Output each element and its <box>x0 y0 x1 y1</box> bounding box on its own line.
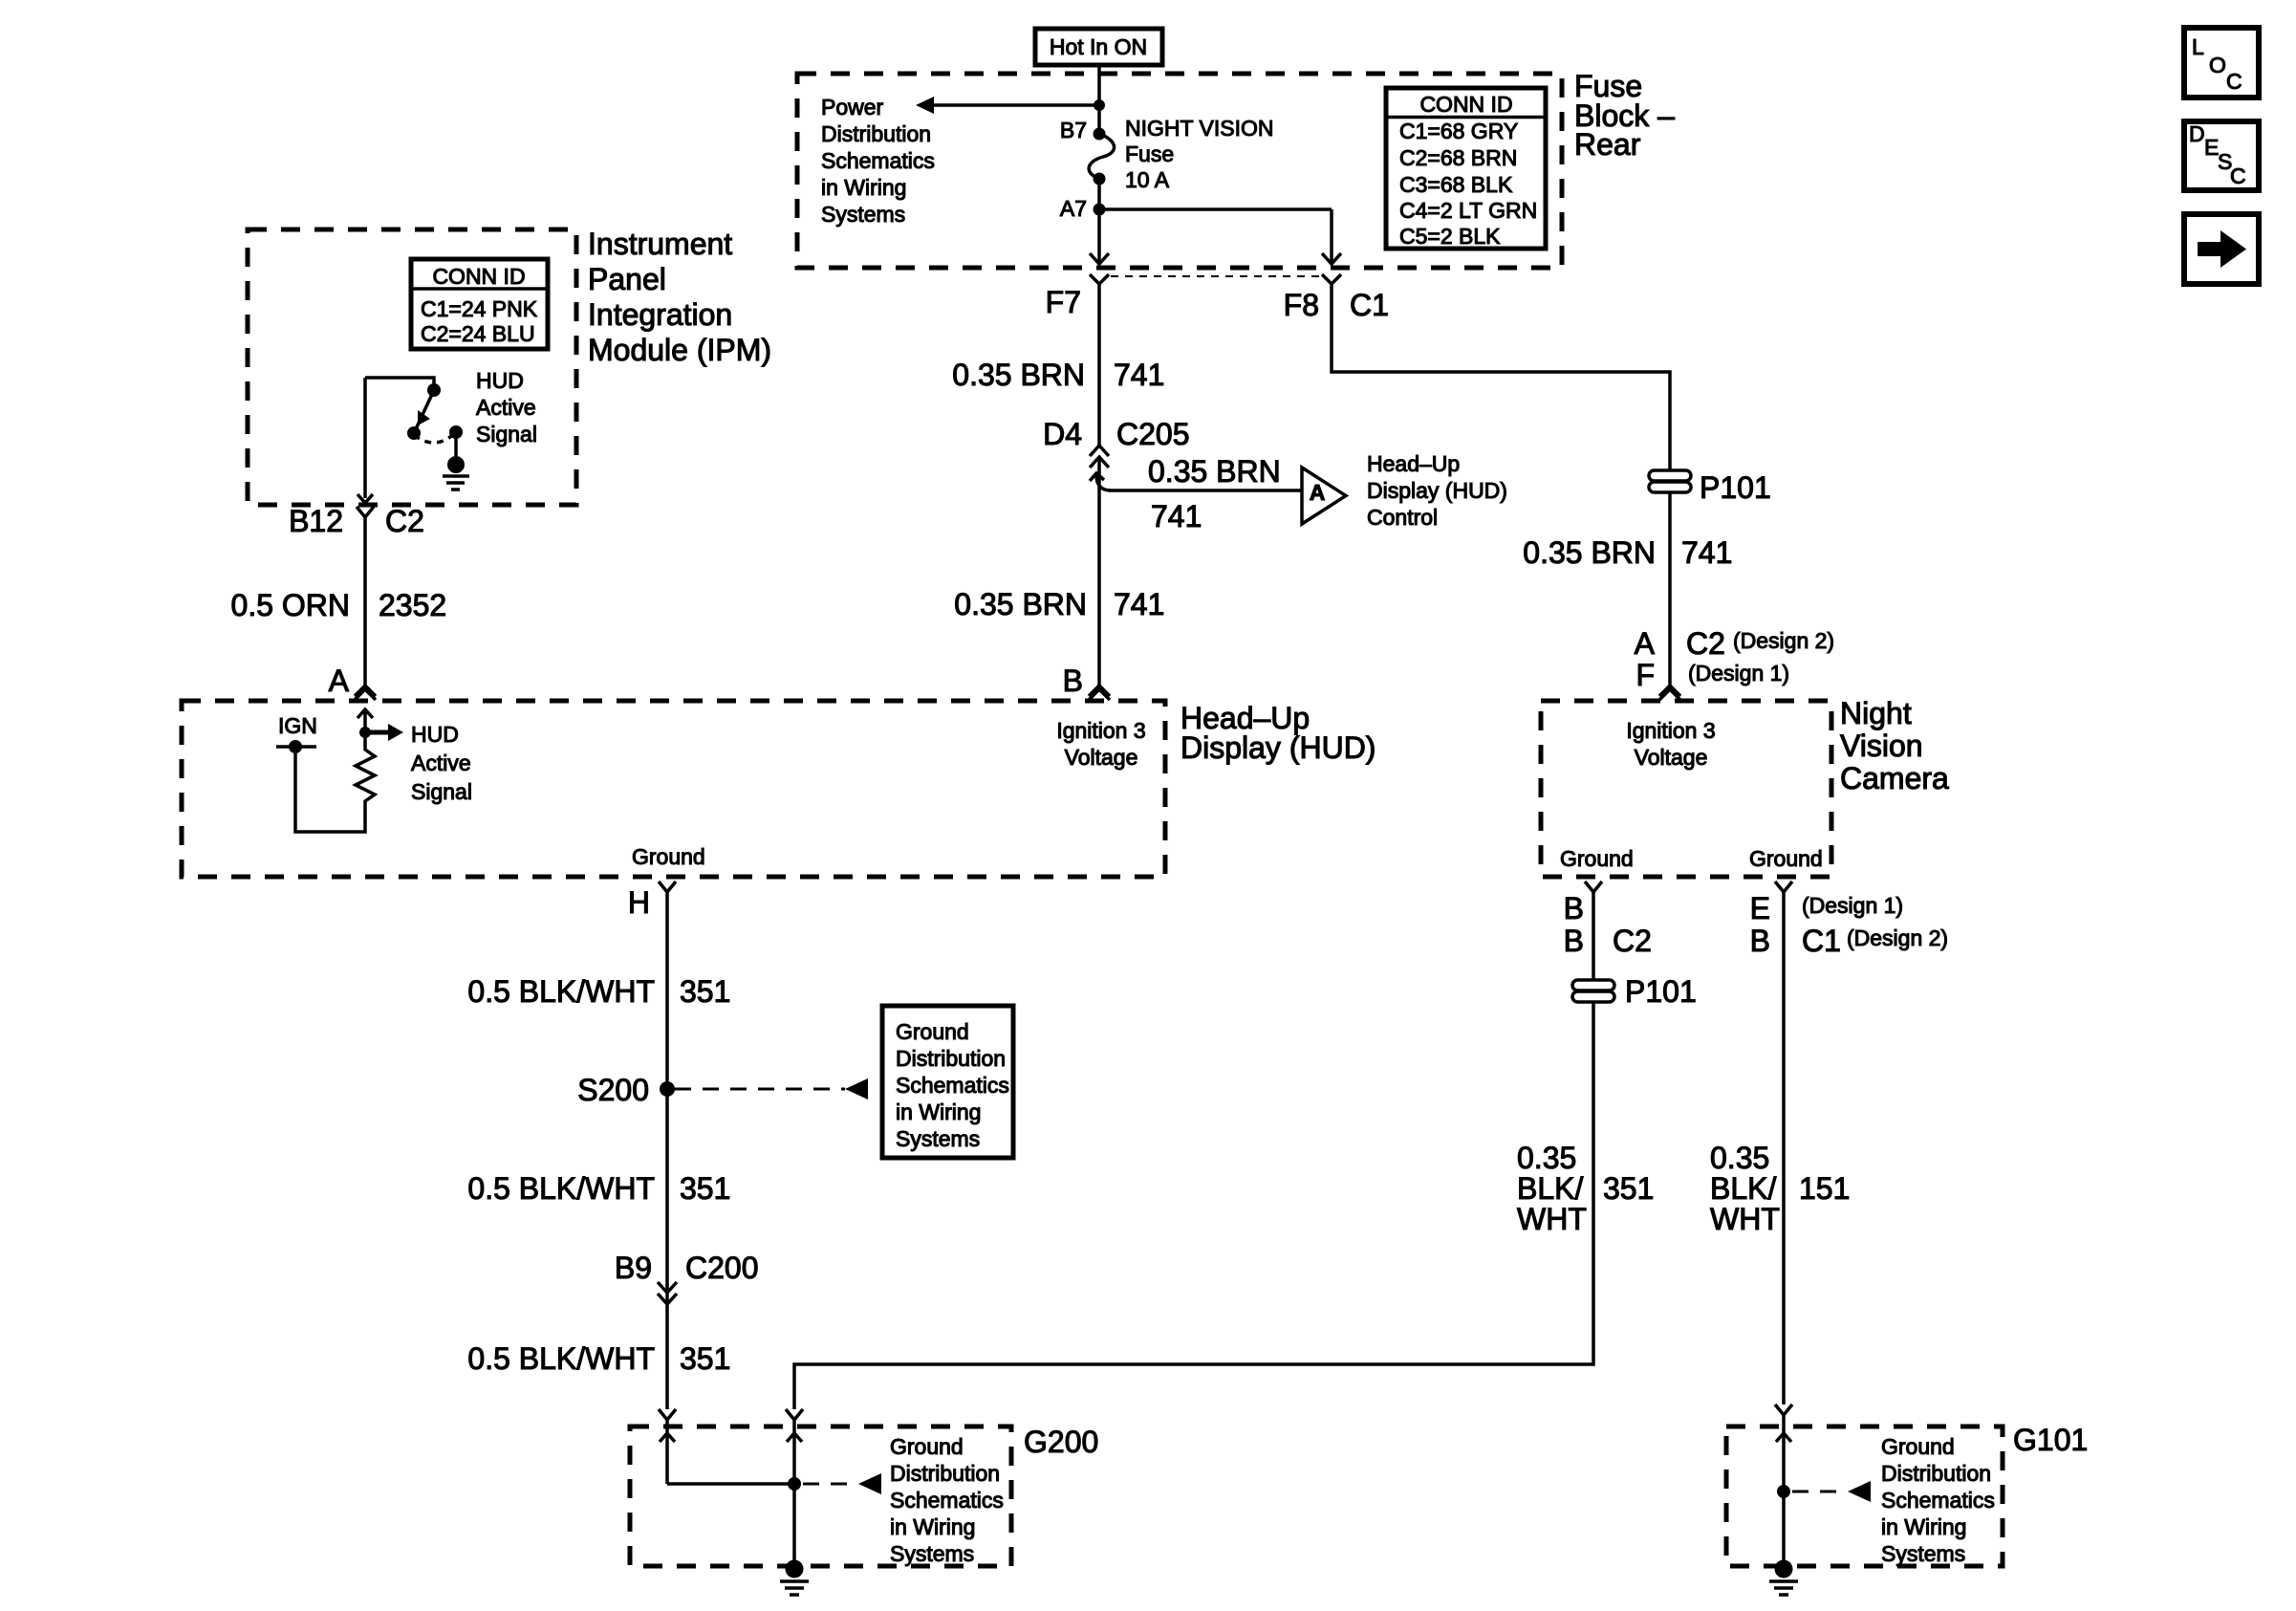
svg-text:0.5 ORN: 0.5 ORN <box>231 588 350 622</box>
svg-text:Ground: Ground <box>632 844 705 869</box>
svg-text:351: 351 <box>680 1341 730 1376</box>
svg-text:in Wiring: in Wiring <box>896 1099 981 1124</box>
svg-text:Active: Active <box>476 395 536 420</box>
svg-text:NIGHT VISION: NIGHT VISION <box>1125 116 1274 141</box>
svg-text:(Design 1): (Design 1) <box>1688 661 1789 686</box>
svg-text:P101: P101 <box>1700 470 1771 505</box>
svg-text:G101: G101 <box>2013 1423 2088 1457</box>
svg-text:Voltage: Voltage <box>1065 745 1138 770</box>
svg-text:741: 741 <box>1114 587 1164 621</box>
svg-text:Active: Active <box>411 751 471 775</box>
svg-text:A: A <box>1310 480 1326 505</box>
svg-text:Ignition 3: Ignition 3 <box>1056 718 1145 743</box>
svg-text:in Wiring: in Wiring <box>890 1514 975 1539</box>
svg-text:Display (HUD): Display (HUD) <box>1180 730 1375 765</box>
svg-text:Distribution: Distribution <box>896 1046 1006 1071</box>
svg-text:Schematics: Schematics <box>821 148 935 173</box>
svg-text:in Wiring: in Wiring <box>1881 1514 1966 1539</box>
svg-text:0.35: 0.35 <box>1517 1141 1576 1175</box>
svg-text:Integration: Integration <box>588 297 732 332</box>
svg-text:C2: C2 <box>385 504 424 538</box>
svg-text:Distribution: Distribution <box>1881 1461 1991 1486</box>
svg-text:(Design 2): (Design 2) <box>1847 925 1948 950</box>
svg-text:Systems: Systems <box>896 1126 980 1151</box>
svg-text:CONN ID: CONN ID <box>1419 92 1512 117</box>
svg-text:Ground: Ground <box>1560 846 1634 871</box>
svg-text:741: 741 <box>1681 535 1732 570</box>
svg-text:C1: C1 <box>1350 288 1389 322</box>
svg-text:D: D <box>2189 121 2205 146</box>
svg-text:WHT: WHT <box>1517 1202 1587 1236</box>
svg-text:Power: Power <box>821 95 884 120</box>
svg-text:351: 351 <box>1603 1171 1654 1206</box>
svg-text:Systems: Systems <box>821 202 905 227</box>
svg-text:0.35 BRN: 0.35 BRN <box>1148 454 1281 489</box>
svg-text:C2: C2 <box>1686 626 1725 661</box>
svg-text:Ground: Ground <box>896 1019 969 1044</box>
svg-text:O: O <box>2209 53 2226 77</box>
svg-text:Panel: Panel <box>588 262 666 296</box>
svg-text:741: 741 <box>1151 499 1202 533</box>
svg-text:A7: A7 <box>1060 196 1087 221</box>
svg-text:HUD: HUD <box>411 722 459 747</box>
svg-text:BLK/: BLK/ <box>1517 1171 1583 1206</box>
svg-text:E: E <box>1750 891 1770 925</box>
svg-text:A: A <box>1635 626 1656 661</box>
svg-text:F: F <box>1635 658 1655 692</box>
svg-text:IGN: IGN <box>278 713 317 738</box>
svg-text:Ignition 3: Ignition 3 <box>1626 718 1715 743</box>
svg-text:0.35 BRN: 0.35 BRN <box>954 587 1087 621</box>
svg-text:Rear: Rear <box>1574 127 1641 162</box>
svg-text:C205: C205 <box>1116 417 1190 451</box>
svg-text:0.5 BLK/WHT: 0.5 BLK/WHT <box>467 974 655 1009</box>
svg-text:C1: C1 <box>1802 924 1841 958</box>
svg-text:0.35 BRN: 0.35 BRN <box>952 358 1085 392</box>
svg-text:B: B <box>1564 924 1584 958</box>
svg-text:Ground: Ground <box>1749 846 1823 871</box>
svg-text:C1=68 GRY: C1=68 GRY <box>1399 119 1518 143</box>
svg-text:Systems: Systems <box>890 1541 974 1566</box>
svg-text:C200: C200 <box>685 1251 759 1285</box>
svg-text:Schematics: Schematics <box>890 1488 1004 1513</box>
svg-text:B: B <box>1750 924 1770 958</box>
svg-text:(Design 1): (Design 1) <box>1802 893 1903 918</box>
svg-text:Ground: Ground <box>890 1434 964 1459</box>
svg-text:L: L <box>2192 34 2204 59</box>
svg-text:C5=2 BLK: C5=2 BLK <box>1399 224 1501 249</box>
svg-text:C3=68 BLK: C3=68 BLK <box>1399 172 1513 197</box>
svg-text:C: C <box>2230 163 2246 188</box>
svg-text:in Wiring: in Wiring <box>821 175 906 200</box>
svg-text:H: H <box>628 885 650 920</box>
svg-text:Distribution: Distribution <box>821 121 931 146</box>
svg-text:B7: B7 <box>1060 118 1087 142</box>
svg-text:2352: 2352 <box>379 588 446 622</box>
svg-text:10 A: 10 A <box>1125 167 1170 192</box>
svg-text:Head–Up: Head–Up <box>1367 451 1460 476</box>
svg-text:B: B <box>1564 891 1584 925</box>
svg-text:Fuse: Fuse <box>1125 142 1174 166</box>
svg-text:Instrument: Instrument <box>588 227 732 261</box>
svg-text:BLK/: BLK/ <box>1710 1171 1776 1206</box>
svg-text:0.5 BLK/WHT: 0.5 BLK/WHT <box>467 1171 655 1206</box>
svg-text:Signal: Signal <box>476 422 537 446</box>
svg-text:C2: C2 <box>1613 924 1652 958</box>
svg-text:B12: B12 <box>289 504 343 538</box>
svg-text:Voltage: Voltage <box>1635 745 1708 770</box>
svg-text:F8: F8 <box>1284 288 1319 322</box>
svg-text:Systems: Systems <box>1881 1541 1965 1566</box>
svg-text:Camera: Camera <box>1840 761 1949 795</box>
svg-text:351: 351 <box>680 1171 730 1206</box>
svg-text:Module (IPM): Module (IPM) <box>588 333 771 367</box>
svg-text:Hot In ON: Hot In ON <box>1050 34 1147 59</box>
svg-text:Vision: Vision <box>1840 729 1923 763</box>
svg-text:P101: P101 <box>1625 974 1697 1009</box>
svg-text:0.5 BLK/WHT: 0.5 BLK/WHT <box>467 1341 655 1376</box>
svg-text:Control: Control <box>1367 505 1438 530</box>
svg-text:B9: B9 <box>615 1251 652 1285</box>
svg-text:CONN ID: CONN ID <box>432 264 525 289</box>
svg-text:C2=68 BRN: C2=68 BRN <box>1399 145 1517 170</box>
svg-text:Ground: Ground <box>1881 1434 1955 1459</box>
svg-text:S200: S200 <box>577 1073 649 1107</box>
svg-text:0.35: 0.35 <box>1710 1141 1769 1175</box>
svg-text:HUD: HUD <box>476 368 524 393</box>
svg-text:351: 351 <box>680 974 730 1009</box>
svg-text:C4=2 LT GRN: C4=2 LT GRN <box>1399 198 1537 223</box>
svg-text:Display (HUD): Display (HUD) <box>1367 478 1507 503</box>
svg-text:Schematics: Schematics <box>896 1073 1009 1098</box>
svg-text:C: C <box>2226 69 2242 94</box>
svg-text:D4: D4 <box>1043 417 1082 451</box>
svg-text:(Design 2): (Design 2) <box>1733 628 1834 653</box>
svg-text:F7: F7 <box>1046 285 1081 319</box>
svg-text:741: 741 <box>1114 358 1164 392</box>
svg-text:Distribution: Distribution <box>890 1461 1000 1486</box>
svg-text:C2=24 BLU: C2=24 BLU <box>421 321 535 346</box>
svg-text:WHT: WHT <box>1710 1202 1780 1236</box>
svg-text:0.35 BRN: 0.35 BRN <box>1523 535 1656 570</box>
svg-text:A: A <box>329 664 350 698</box>
svg-text:B: B <box>1063 664 1083 698</box>
svg-text:Signal: Signal <box>411 779 472 804</box>
svg-text:C1=24 PNK: C1=24 PNK <box>421 296 538 321</box>
svg-text:Schematics: Schematics <box>1881 1488 1995 1513</box>
svg-text:151: 151 <box>1799 1171 1850 1206</box>
svg-text:Night: Night <box>1840 696 1912 730</box>
svg-text:G200: G200 <box>1024 1425 1098 1459</box>
